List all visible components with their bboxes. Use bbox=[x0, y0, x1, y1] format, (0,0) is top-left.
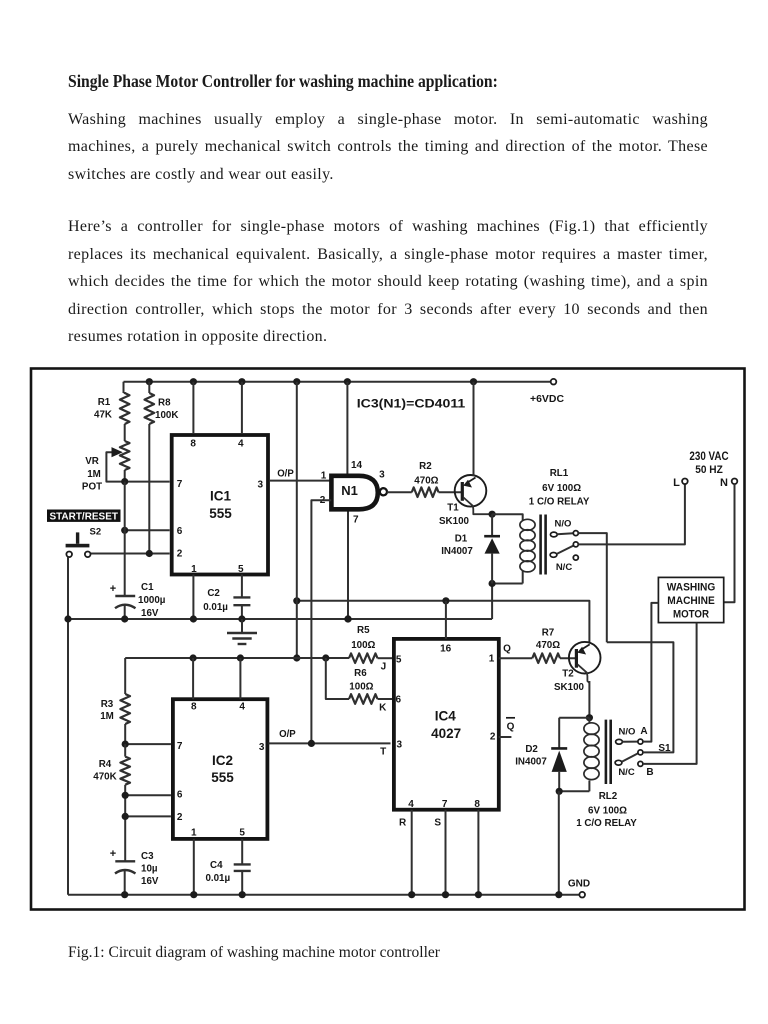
svg-text:C1: C1 bbox=[141, 582, 154, 593]
svg-text:470Ω: 470Ω bbox=[414, 476, 438, 487]
svg-text:4: 4 bbox=[239, 701, 245, 712]
svg-text:R3: R3 bbox=[101, 699, 114, 710]
svg-text:1: 1 bbox=[489, 654, 495, 665]
svg-text:R5: R5 bbox=[357, 625, 370, 636]
svg-text:1000µ: 1000µ bbox=[138, 595, 166, 606]
svg-text:RL2: RL2 bbox=[599, 791, 618, 802]
svg-text:N/O: N/O bbox=[555, 519, 572, 530]
svg-text:WASHING: WASHING bbox=[667, 582, 716, 594]
svg-text:0.01µ: 0.01µ bbox=[205, 873, 230, 884]
svg-text:+: + bbox=[110, 848, 116, 860]
svg-text:MOTOR: MOTOR bbox=[673, 609, 709, 621]
svg-text:470K: 470K bbox=[93, 772, 116, 783]
svg-text:B: B bbox=[646, 767, 653, 778]
svg-text:16: 16 bbox=[440, 644, 452, 655]
svg-text:IC2: IC2 bbox=[212, 753, 233, 768]
svg-text:R: R bbox=[399, 818, 407, 829]
svg-text:1M: 1M bbox=[100, 711, 114, 722]
svg-text:14: 14 bbox=[351, 460, 363, 471]
svg-text:1 C/O RELAY: 1 C/O RELAY bbox=[529, 497, 590, 508]
svg-text:6: 6 bbox=[177, 790, 183, 801]
svg-text:R7: R7 bbox=[542, 628, 555, 639]
svg-text:3: 3 bbox=[259, 742, 265, 753]
svg-text:D2: D2 bbox=[525, 744, 538, 755]
svg-text:5: 5 bbox=[396, 654, 402, 665]
svg-text:Q: Q bbox=[507, 722, 515, 733]
svg-text:4: 4 bbox=[408, 799, 414, 810]
svg-text:VR: VR bbox=[85, 456, 99, 467]
svg-text:555: 555 bbox=[209, 506, 232, 521]
svg-text:7: 7 bbox=[353, 515, 359, 526]
svg-text:+: + bbox=[110, 583, 116, 595]
svg-text:C4: C4 bbox=[210, 860, 223, 871]
svg-text:16V: 16V bbox=[141, 608, 159, 619]
svg-text:MACHINE: MACHINE bbox=[667, 595, 715, 607]
svg-text:RL1: RL1 bbox=[550, 468, 569, 479]
svg-text:D1: D1 bbox=[455, 534, 468, 545]
svg-text:555: 555 bbox=[211, 770, 234, 785]
svg-text:4027: 4027 bbox=[431, 726, 461, 741]
svg-text:C2: C2 bbox=[207, 588, 220, 599]
svg-text:POT: POT bbox=[82, 482, 102, 493]
svg-text:1: 1 bbox=[191, 827, 197, 838]
svg-text:T1: T1 bbox=[447, 503, 459, 514]
svg-text:N1: N1 bbox=[341, 483, 358, 498]
svg-text:K: K bbox=[379, 703, 387, 714]
svg-text:Q: Q bbox=[503, 644, 511, 655]
svg-text:GND: GND bbox=[568, 878, 590, 889]
svg-text:1: 1 bbox=[321, 470, 327, 481]
svg-text:A: A bbox=[640, 726, 647, 737]
svg-text:L: L bbox=[673, 477, 680, 489]
svg-text:C3: C3 bbox=[141, 851, 154, 862]
svg-text:7: 7 bbox=[177, 479, 183, 490]
svg-text:+6VDC: +6VDC bbox=[530, 393, 564, 405]
svg-text:O/P: O/P bbox=[277, 468, 294, 479]
svg-text:100Ω: 100Ω bbox=[351, 640, 375, 651]
svg-text:1M: 1M bbox=[87, 469, 101, 480]
svg-text:T: T bbox=[380, 746, 386, 757]
svg-text:6: 6 bbox=[177, 526, 183, 537]
svg-text:47K: 47K bbox=[94, 410, 112, 421]
svg-text:SK100: SK100 bbox=[439, 516, 470, 527]
svg-text:1: 1 bbox=[191, 564, 197, 575]
svg-text:T2: T2 bbox=[562, 669, 574, 680]
svg-text:S2: S2 bbox=[90, 527, 102, 538]
svg-text:3: 3 bbox=[379, 470, 385, 481]
svg-text:5: 5 bbox=[239, 827, 245, 838]
svg-text:8: 8 bbox=[190, 439, 196, 450]
svg-text:R6: R6 bbox=[354, 668, 367, 679]
svg-text:230 VAC: 230 VAC bbox=[689, 450, 729, 463]
svg-text:IC4: IC4 bbox=[435, 709, 457, 724]
svg-text:S: S bbox=[434, 818, 441, 829]
svg-text:7: 7 bbox=[177, 741, 183, 752]
svg-text:R1: R1 bbox=[98, 397, 111, 408]
svg-text:6V 100Ω: 6V 100Ω bbox=[588, 806, 627, 817]
svg-text:10µ: 10µ bbox=[141, 864, 158, 875]
svg-text:3: 3 bbox=[258, 480, 264, 491]
svg-text:2: 2 bbox=[490, 732, 496, 743]
svg-text:N/C: N/C bbox=[556, 562, 573, 573]
svg-text:16V: 16V bbox=[141, 876, 159, 887]
svg-text:R4: R4 bbox=[99, 759, 112, 770]
svg-text:0.01µ: 0.01µ bbox=[203, 602, 228, 613]
svg-text:1 C/O RELAY: 1 C/O RELAY bbox=[576, 818, 637, 829]
svg-text:N: N bbox=[720, 477, 728, 489]
svg-text:SK100: SK100 bbox=[554, 682, 585, 693]
svg-text:470Ω: 470Ω bbox=[536, 640, 560, 651]
svg-text:IN4007: IN4007 bbox=[515, 756, 547, 767]
svg-text:O/P: O/P bbox=[279, 729, 296, 740]
svg-text:8: 8 bbox=[191, 701, 197, 712]
svg-text:IC3(N1)=CD4011: IC3(N1)=CD4011 bbox=[357, 397, 466, 411]
svg-text:7: 7 bbox=[442, 799, 448, 810]
svg-text:100Ω: 100Ω bbox=[349, 682, 373, 693]
svg-text:3: 3 bbox=[397, 740, 403, 751]
svg-text:IC1: IC1 bbox=[210, 489, 232, 504]
svg-text:6V 100Ω: 6V 100Ω bbox=[542, 483, 581, 494]
svg-text:IN4007: IN4007 bbox=[441, 546, 473, 557]
svg-text:6: 6 bbox=[396, 695, 402, 706]
svg-text:J: J bbox=[381, 662, 387, 673]
svg-text:N/O: N/O bbox=[619, 727, 636, 738]
svg-text:R8: R8 bbox=[158, 398, 171, 409]
svg-text:R2: R2 bbox=[419, 461, 432, 472]
svg-text:2: 2 bbox=[177, 812, 183, 823]
svg-text:8: 8 bbox=[474, 799, 480, 810]
svg-text:4: 4 bbox=[238, 439, 244, 450]
svg-text:50 HZ: 50 HZ bbox=[695, 464, 723, 476]
svg-text:100K: 100K bbox=[155, 410, 178, 421]
svg-text:2: 2 bbox=[177, 548, 183, 559]
svg-text:N/C: N/C bbox=[618, 767, 635, 778]
svg-text:START/RESET: START/RESET bbox=[49, 511, 118, 522]
svg-text:5: 5 bbox=[238, 564, 244, 575]
